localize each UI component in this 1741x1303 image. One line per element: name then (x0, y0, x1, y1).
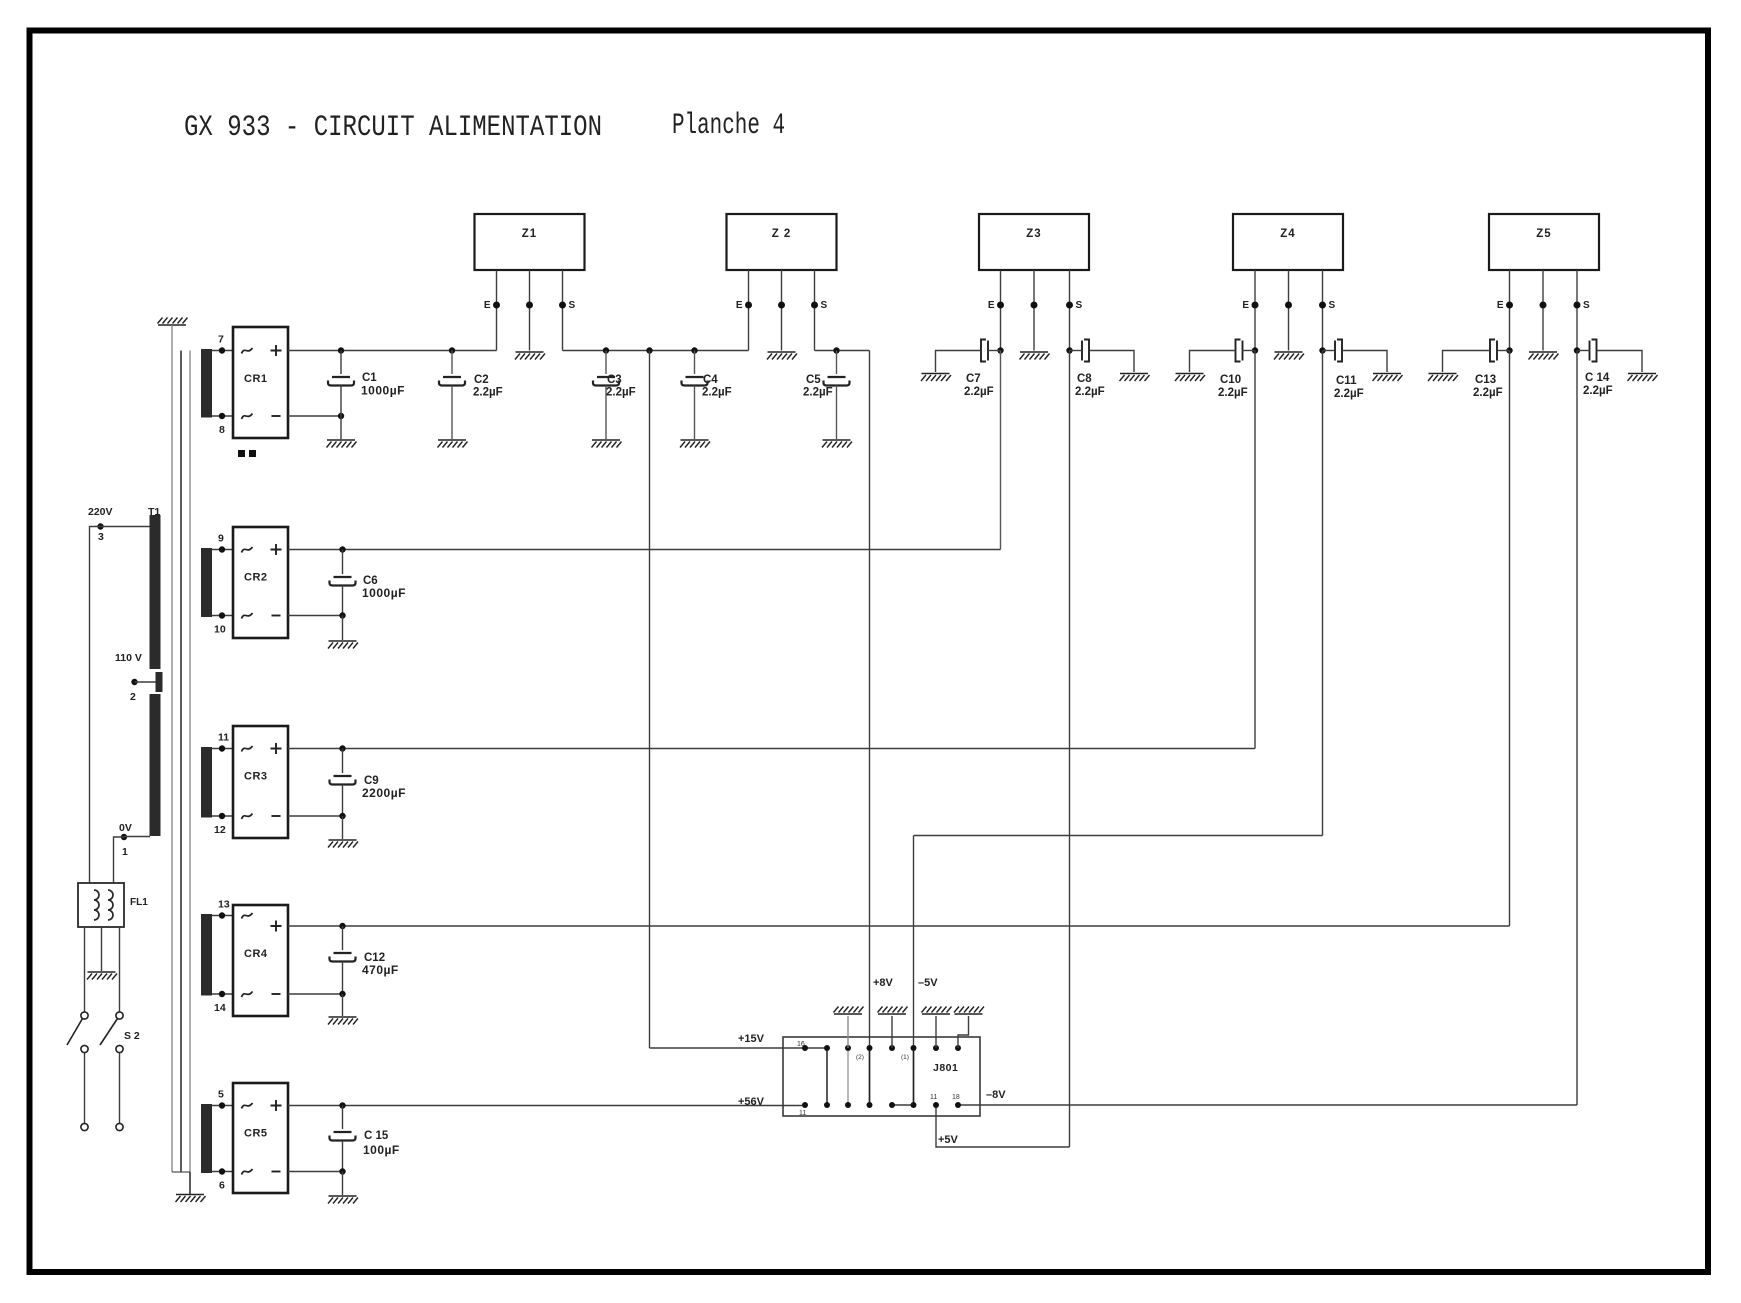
primary winding lower bar (150, 694, 161, 836)
svg-text:9: 9 (218, 533, 224, 545)
wire Z5 S down to -8V run (1576, 351, 1578, 1106)
J801 internal wire a (826, 1048, 828, 1105)
svg-text:S: S (1329, 300, 1336, 311)
svg-text:2.2µF: 2.2µF (1218, 387, 1248, 399)
wire winding to CR1 pin 7 (212, 350, 233, 352)
switch S2 pole1 bottom contact (81, 1045, 88, 1052)
svg-text:18: 18 (952, 1094, 960, 1101)
ground above J801 no.3 (922, 1007, 952, 1015)
transformer core line (180, 351, 182, 1173)
node C9 bottom junction (339, 813, 345, 819)
Z5 middle pin wire (1542, 270, 1544, 351)
wire FL1 middle output to ground (101, 927, 103, 971)
bridge rectifier CR2 box (233, 527, 288, 638)
Z1 S pin wire (562, 270, 564, 351)
svg-text:FL1: FL1 (130, 897, 148, 908)
wire core bottom connector (172, 1171, 190, 1173)
svg-text:CR3: CR3 (244, 771, 268, 783)
J801 internal wire bottom stub (892, 1104, 914, 1106)
J801 top pin 4 node (867, 1045, 873, 1051)
switch S2 pole2 blade (100, 1019, 118, 1046)
CR1 AC symbol bottom (242, 414, 253, 420)
wire C15 to ground (342, 1172, 344, 1196)
wire C 14 to ground (1597, 351, 1643, 373)
wire J801 ground stem 1 (847, 1016, 849, 1048)
J801 top pin 7 node (933, 1045, 939, 1051)
wire pin3 to primary winding (101, 526, 151, 528)
svg-text:10: 10 (214, 624, 226, 636)
svg-text:7: 7 (218, 334, 224, 346)
wire Z4 S down to -5V run (1322, 351, 1324, 836)
svg-text:S: S (1076, 300, 1083, 311)
switch S2 pole2 lead (119, 1053, 121, 1124)
regulator Z 2 box (727, 214, 837, 270)
CR3 AC symbol top (242, 746, 253, 752)
svg-text:J801: J801 (933, 1062, 958, 1074)
ground C6 (328, 641, 358, 649)
svg-text:E: E (1242, 300, 1249, 311)
ground C12 (328, 1017, 358, 1025)
svg-text:S 2: S 2 (124, 1030, 140, 1042)
wire Z2 S rail to +8V branch (815, 350, 870, 352)
svg-text:Z4: Z4 (1280, 228, 1295, 240)
CR3 plus symbol (271, 743, 282, 754)
wire Z1 S rail to Z2 E (563, 350, 749, 352)
capacitor C5 (836, 351, 838, 375)
Z5 E pin node (1506, 302, 1513, 309)
wire Z3 S down to +5V corner (1069, 351, 1071, 1148)
Z1 S pin node (559, 302, 566, 309)
ground C9 (328, 840, 358, 848)
ground FL1 (87, 972, 117, 980)
Z3 S pin node (1066, 302, 1073, 309)
capacitor C10 (1236, 340, 1241, 362)
J801 top pin 8 node (955, 1045, 961, 1051)
CR3 AC symbol bottom (242, 814, 253, 820)
svg-text:2: 2 (130, 691, 136, 703)
capacitor C6 (342, 550, 344, 575)
bridge rectifier CR5 box (233, 1083, 288, 1193)
J801 bottom pin 5 node (889, 1102, 895, 1108)
ground C1 (327, 440, 357, 448)
svg-text:11: 11 (799, 1110, 806, 1117)
wire Z3 E down to CR2 rail (1000, 351, 1002, 550)
svg-text:E: E (484, 300, 491, 311)
J801 internal wire d (913, 1048, 915, 1105)
capacitor C13 (1490, 340, 1495, 362)
node C8 junction (1066, 347, 1072, 353)
Z3 middle pin ground (1020, 352, 1050, 360)
wire C7 to ground (936, 351, 982, 373)
svg-text:C7: C7 (966, 373, 981, 385)
svg-text:100µF: 100µF (363, 1143, 400, 1157)
node C5 junction (833, 347, 839, 353)
node pin 14 (219, 991, 225, 997)
decoration squares below CR1 (238, 450, 245, 457)
wire FL1 right output (119, 927, 121, 1012)
svg-text:C8: C8 (1077, 373, 1092, 385)
svg-text:2.2µF: 2.2µF (473, 387, 503, 399)
node pin 9 (219, 546, 225, 552)
bridge rectifier CR3 box (233, 726, 288, 838)
svg-text:11: 11 (930, 1094, 937, 1101)
J801 bottom pin 2 node (824, 1102, 830, 1108)
ground C7 (921, 374, 951, 382)
ground above J801 no.4 (954, 1007, 984, 1015)
secondary winding for CR2 (201, 548, 212, 617)
Z3 middle pin node (1031, 302, 1038, 309)
J801 bottom pin 1 node (802, 1102, 808, 1108)
svg-text:(2): (2) (856, 1054, 864, 1061)
wire pin2 tap (135, 681, 160, 683)
node C6 bottom junction (339, 612, 345, 618)
svg-text:C4: C4 (703, 374, 718, 386)
ground C5 (822, 440, 852, 448)
Z5 middle pin ground (1529, 352, 1559, 360)
svg-text:CR4: CR4 (244, 948, 268, 960)
switch S2 pole1 top contact (81, 1012, 88, 1019)
wire C12 to ground (342, 994, 344, 1016)
regulator Z3 box (979, 214, 1089, 270)
wire J801 ground stem 2 (891, 1016, 893, 1048)
wire +5V from J801 to Z3 S line (936, 1105, 1070, 1147)
ground C 14 (1628, 374, 1658, 382)
Z4 E pin wire (1254, 270, 1256, 351)
wire winding to CR4 pin 13 (212, 915, 233, 917)
svg-text:C13: C13 (1475, 374, 1496, 386)
wire winding to CR5 pin 6 (212, 1171, 233, 1173)
transformer core ground (bottom) (176, 1195, 206, 1203)
node C10 junction (1252, 347, 1258, 353)
svg-text:2.2µF: 2.2µF (964, 386, 994, 398)
wire -5V run left (914, 835, 1323, 837)
J801 bottom pin 6 node (911, 1102, 917, 1108)
capacitor C1 (340, 351, 342, 375)
svg-text:C3: C3 (607, 374, 622, 386)
wire winding to CR3 pin 11 (212, 748, 233, 750)
svg-text:Z1: Z1 (522, 228, 537, 240)
wire CR3 plus rail to Z4 E (288, 748, 1255, 750)
svg-text:+56V: +56V (738, 1096, 765, 1108)
filter FL1 box (78, 883, 124, 927)
bridge rectifier CR4 box (233, 905, 288, 1016)
CR2 plus symbol (271, 544, 282, 555)
transformer shield ground (top) (158, 318, 188, 326)
switch S2 pole2 bottom contact (116, 1045, 123, 1052)
switch S2 pole1 terminal (81, 1123, 88, 1130)
wire Z5 E down (1509, 351, 1511, 927)
svg-text:E: E (988, 300, 995, 311)
node C7 junction (997, 347, 1003, 353)
secondary winding for CR4 (201, 914, 212, 996)
wire core to bottom ground (189, 1172, 191, 1194)
svg-text:1000µF: 1000µF (362, 586, 406, 600)
CR2 AC symbol top (242, 547, 253, 553)
wire winding to CR3 pin 12 (212, 815, 233, 817)
Z1 middle pin node (526, 302, 533, 309)
capacitor C 14 (1592, 340, 1597, 362)
CR4 AC symbol top (242, 913, 253, 919)
Z3 S pin wire (1069, 270, 1071, 351)
Z 2 middle pin node (778, 302, 785, 309)
wire CR5 plus +56V rail to J801 (288, 1105, 805, 1107)
wire C10 to ground (1190, 351, 1236, 373)
node C9 junction (339, 745, 345, 751)
wire CR2 minus row (288, 615, 343, 617)
svg-text:C 15: C 15 (364, 1130, 389, 1142)
J801 internal wire c (869, 1048, 871, 1105)
node C1 junction (338, 347, 344, 353)
capacitor C3 (605, 351, 607, 375)
ground C11 (1373, 374, 1403, 382)
secondary winding for CR5 (201, 1104, 212, 1173)
capacitor C15 (342, 1106, 344, 1130)
ground C13 (1428, 374, 1458, 382)
svg-text:2.2µF: 2.2µF (1334, 388, 1364, 400)
CR3 minus symbol (272, 815, 281, 817)
node pin 11 (219, 745, 225, 751)
ground C10 (1175, 374, 1205, 382)
svg-text:8: 8 (219, 424, 225, 436)
svg-text:Z5: Z5 (1536, 228, 1551, 240)
J801 top pin 6 node (911, 1045, 917, 1051)
regulator Z1 box (475, 214, 585, 270)
CR1 minus symbol (272, 415, 281, 417)
svg-text:E: E (736, 300, 743, 311)
node pin 8 (219, 413, 225, 419)
ground above J801 no.1 (834, 1007, 864, 1015)
wire J801 ground stem 4 jog (958, 1016, 969, 1048)
node C12 bottom junction (339, 991, 345, 997)
primary pin 3 node (97, 523, 103, 529)
wire C3 to ground (605, 386, 607, 440)
node C15 junction (339, 1102, 345, 1108)
svg-text:3: 3 (98, 531, 104, 543)
svg-text:2.2µF: 2.2µF (1075, 386, 1105, 398)
svg-text:2.2µF: 2.2µF (702, 387, 732, 399)
svg-text:5: 5 (218, 1089, 224, 1101)
svg-text:E: E (1497, 300, 1504, 311)
wire C5 to ground (836, 386, 838, 440)
CR4 plus symbol (271, 921, 282, 932)
svg-text:16: 16 (797, 1041, 805, 1048)
regulator Z5 box (1489, 214, 1599, 270)
capacitor C7 (981, 340, 986, 362)
J801 bottom pin 3 node (845, 1102, 851, 1108)
node pin 5 (219, 1102, 225, 1108)
CR5 AC symbol top (242, 1103, 253, 1109)
svg-text:2.2µF: 2.2µF (606, 387, 636, 399)
svg-text:CR1: CR1 (244, 373, 268, 385)
switch S2 pole2 terminal (116, 1123, 123, 1130)
Z4 S pin node (1319, 302, 1326, 309)
node +15V branch junction (646, 347, 652, 353)
Z1 E pin wire (496, 270, 498, 351)
primary tap pin 2 node (131, 679, 137, 685)
Z3 E pin wire (1000, 270, 1002, 351)
Z3 middle pin wire (1033, 270, 1035, 351)
svg-text:–8V: –8V (986, 1089, 1006, 1101)
wire C13 to ground (1443, 351, 1491, 373)
J801 top pin 2 node (824, 1045, 830, 1051)
transformer shield line left (171, 325, 173, 1172)
CR2 minus symbol (272, 615, 281, 617)
wire CR2 plus rail (288, 549, 1001, 551)
filter FL1 coil right (108, 890, 113, 920)
Z 2 E pin wire (748, 270, 750, 351)
primary tap stub (156, 672, 163, 692)
J801 top pin 5 node (889, 1045, 895, 1051)
node C15 bottom junction (339, 1168, 345, 1174)
svg-text:470µF: 470µF (362, 963, 399, 977)
node pin 13 (219, 912, 225, 918)
svg-text:–5V: –5V (918, 977, 938, 989)
capacitor C11 (1337, 340, 1342, 362)
ground C15 (328, 1196, 358, 1204)
node pin 7 (219, 347, 225, 353)
svg-text:1000µF: 1000µF (361, 384, 405, 398)
Z5 S pin node (1574, 302, 1581, 309)
J801 internal wire b (847, 1016, 849, 1105)
J801 top pin 3 node (845, 1045, 851, 1051)
svg-text:Z 2: Z 2 (772, 228, 792, 240)
wire C6 to ground (342, 616, 344, 641)
CR5 minus symbol (272, 1171, 281, 1173)
CR4 minus symbol (272, 993, 281, 995)
svg-text:+5V: +5V (938, 1134, 959, 1146)
wire 0V down to FL1 (114, 837, 125, 883)
node C12 junction (339, 923, 345, 929)
Z 2 E pin node (745, 302, 752, 309)
wire CR5 minus row (288, 1171, 343, 1173)
wire C4 to ground (694, 386, 696, 440)
wire winding to CR2 pin 10 (212, 615, 233, 617)
svg-text:2200µF: 2200µF (362, 786, 406, 800)
svg-text:C11: C11 (1336, 375, 1357, 387)
svg-text:6: 6 (219, 1180, 225, 1192)
Z5 middle pin node (1540, 302, 1547, 309)
Z4 S pin wire (1322, 270, 1324, 351)
capacitor C9 (342, 749, 344, 774)
svg-text:CR5: CR5 (244, 1128, 268, 1140)
svg-text:2.2µF: 2.2µF (1473, 387, 1503, 399)
svg-text:+15V: +15V (738, 1033, 765, 1045)
svg-text:2.2µF: 2.2µF (803, 387, 833, 399)
capacitor C12 (342, 926, 344, 950)
ground C8 (1120, 374, 1150, 382)
filter FL1 coil left (94, 890, 99, 920)
secondary winding for CR3 (201, 747, 212, 818)
capacitor C4 (694, 351, 696, 375)
wire winding to CR1 pin 8 (212, 415, 233, 417)
node C13 junction (1506, 347, 1512, 353)
node C 14 junction (1574, 347, 1580, 353)
J801 bottom pin 8 node (955, 1102, 961, 1108)
Z5 S pin wire (1576, 270, 1578, 351)
switch S2 pole2 top contact (116, 1012, 123, 1019)
wire pin1 to primary winding (124, 836, 150, 838)
Z4 middle pin wire (1288, 270, 1290, 351)
J801 bottom pin 4 node (867, 1102, 873, 1108)
ground C3 (592, 440, 622, 448)
svg-text:C10: C10 (1220, 374, 1241, 386)
Z3 E pin node (997, 302, 1004, 309)
svg-text:11: 11 (218, 732, 229, 744)
Z 2 middle pin ground (767, 352, 797, 360)
Z 2 S pin wire (814, 270, 816, 351)
wire winding to CR2 pin 9 (212, 549, 233, 551)
CR5 AC symbol bottom (242, 1169, 253, 1175)
svg-text:Planche 4: Planche 4 (672, 109, 785, 143)
Z 2 middle pin wire (781, 270, 783, 351)
CR2 AC symbol bottom (242, 613, 253, 619)
secondary winding for CR1 (201, 349, 212, 418)
svg-text:1: 1 (122, 846, 128, 858)
svg-text:Z3: Z3 (1026, 228, 1041, 240)
wire C1 to ground (340, 416, 342, 439)
wire -5V down to J801 (913, 836, 915, 1106)
svg-text:13: 13 (218, 899, 230, 911)
wire Z4 E down (1254, 351, 1256, 749)
svg-text:110 V: 110 V (115, 652, 142, 664)
Z1 middle pin ground (515, 352, 545, 360)
svg-text:2.2µF: 2.2µF (1583, 385, 1613, 397)
CR1 AC symbol top (242, 348, 253, 354)
primary winding upper bar (150, 515, 161, 669)
node C4 junction (691, 347, 697, 353)
Z4 middle pin ground (1274, 352, 1304, 360)
Z1 middle pin wire (529, 270, 531, 351)
transformer core line 2 (189, 351, 191, 1173)
node pin 6 (219, 1168, 225, 1174)
svg-text:S: S (821, 300, 828, 311)
svg-text:C2: C2 (474, 374, 489, 386)
CR1 plus symbol (271, 345, 282, 356)
svg-text:CR2: CR2 (244, 572, 268, 584)
wire CR3 minus row (288, 815, 343, 817)
svg-text:+8V: +8V (873, 977, 894, 989)
wire CR1 minus row (288, 415, 341, 417)
node C6 junction (339, 546, 345, 552)
CR5 plus symbol (271, 1100, 282, 1111)
svg-text:S: S (1583, 300, 1590, 311)
wire +8V line down to J801 (869, 351, 871, 1106)
wire +15V branch down (649, 351, 651, 1049)
node C2 junction (449, 347, 455, 353)
regulator Z4 box (1233, 214, 1343, 270)
ground C4 (680, 440, 710, 448)
svg-text:(1): (1) (901, 1054, 909, 1061)
switch S2 pole1 lead (84, 1053, 86, 1124)
bridge rectifier CR1 box (233, 327, 288, 438)
CR4 AC symbol bottom (242, 992, 253, 998)
ground C2 (438, 440, 468, 448)
capacitor C2 (451, 351, 453, 375)
wire CR4 minus row (288, 993, 343, 995)
connector J801 box (783, 1037, 980, 1116)
Z4 E pin node (1252, 302, 1259, 309)
svg-text:C5: C5 (806, 374, 821, 386)
node C1 bottom junction (338, 413, 344, 419)
J801 top pin 1 node (802, 1045, 808, 1051)
wire 220V down to FL1 (90, 527, 101, 884)
svg-text:C 14: C 14 (1585, 372, 1610, 384)
Z 2 S pin node (811, 302, 818, 309)
wire C8 to ground (1089, 351, 1134, 373)
wire +15V to J801 (650, 1047, 806, 1049)
svg-text:C1: C1 (362, 372, 377, 384)
Z5 E pin wire (1509, 270, 1511, 351)
